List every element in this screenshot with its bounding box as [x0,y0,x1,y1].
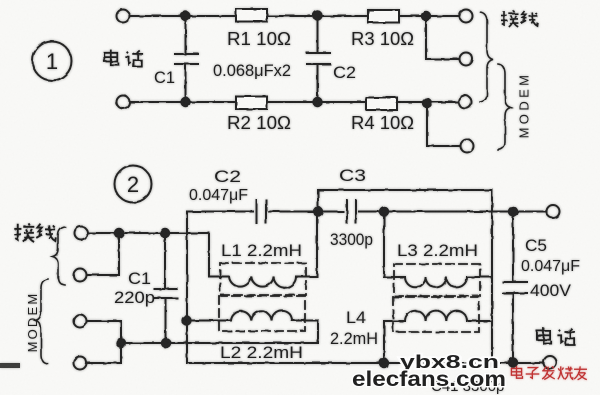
capacitor C2 circuit2 [256,200,258,223]
node T3T4 join [116,338,126,348]
node bottom rail at C1 [180,97,190,107]
node L2 left [181,315,191,325]
wire L1 out up [316,212,318,277]
wire L3 lead-in [383,212,385,278]
node loop bottom [486,357,496,367]
node top rail branch [421,11,431,21]
shield box L2 [219,296,305,331]
terminal left T3 [74,315,87,328]
capacitor C5 [512,212,514,283]
node C1 top [160,228,170,238]
inductor L3 coil [384,277,492,287]
wire top rail [130,15,459,17]
upper loop wire [318,190,492,363]
brace left upper [53,227,66,285]
capacitor C1 circuit1 [185,16,187,54]
scan artifact bottom left [0,363,20,368]
capacitor C1 circuit2 [164,233,166,289]
inductor L1 coil [209,277,317,288]
left outer vertical [186,212,188,364]
brace right upper [480,12,493,102]
terminal right 3 [459,96,472,109]
circled number 2 [115,166,152,203]
terminal right 4 [461,140,474,153]
label jiexian circuit2 left [14,223,34,242]
wire bottom rail [130,101,458,103]
shield box L4 [393,297,479,332]
inductor L4 coil [384,311,492,321]
terminal right 2 [460,53,473,66]
terminal left T4 [74,357,87,370]
terminal left top [117,10,130,23]
node L3 top [379,206,389,216]
wire branch lower right [427,103,460,146]
wire T3 down [87,321,121,343]
terminal right 1 [460,10,473,23]
wire T1 [88,232,209,234]
wire L2 out down [317,321,319,344]
terminal left T2 [74,269,87,282]
wire L4 down [383,321,385,363]
node top rail at C2 [312,10,322,20]
resistor R4 [366,98,397,111]
wire T4 up [87,343,121,363]
inductor L2 coil [187,310,319,320]
circled number 1 [33,42,72,81]
label dianhua circuit2 right [537,328,551,344]
shield box L3 [394,264,480,296]
label jiexian circuit1 right [501,11,518,27]
wire T2 up [87,233,119,275]
watermark chinese red [511,366,587,380]
brace left lower [36,279,49,364]
resistor R1 [236,9,267,22]
node C5 bottom [508,357,518,367]
terminal left T1 [75,227,88,240]
wire L1 lead-in [208,233,210,277]
node top rail at C1 [180,11,190,21]
node C5 top [508,206,518,216]
resistor R2 [236,97,267,110]
node bottom rail at C2 [312,97,322,107]
node C2C3 junction [313,206,323,216]
capacitor C3 [346,200,348,223]
capacitor C2 circuit1 [317,15,319,53]
resistor R3 [368,10,399,23]
terminal right top circuit2 [547,205,560,218]
node T2 join [114,228,124,238]
top rail circuit 2 [187,211,253,213]
wire B [121,342,318,344]
brace right lower [498,64,511,150]
node L4 bottom [379,358,389,368]
node bottom rail branch [422,98,432,108]
chinese labels drawn as strokes [14,11,575,345]
label dianhua circuit1 [104,50,118,66]
terminal right bottom circuit2 [544,356,557,369]
wire branch upper right [426,16,459,59]
terminal left bottom [117,96,130,109]
node C1 bottom [161,338,171,348]
bottom rail circuit 2 [187,362,543,364]
shield box L1 [220,263,306,295]
